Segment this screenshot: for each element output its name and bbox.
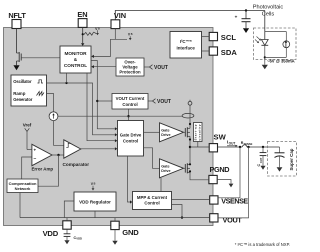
svg-text:B: B	[98, 27, 100, 30]
svg-text:Protection: Protection	[119, 70, 141, 75]
node input cap junction	[245, 9, 247, 11]
label Iout with arrow	[227, 140, 238, 147]
wire VOUT CC down to sense line and GDC top	[128, 109, 130, 121]
wire OVP to monitor	[94, 66, 117, 68]
node COUT tap	[262, 146, 264, 148]
buffer upper gate drive	[160, 123, 184, 142]
pin SCL	[209, 32, 217, 40]
wire compensation to bottom rail	[19, 193, 21, 218]
svg-text:Control: Control	[123, 138, 138, 143]
monitor & control U1	[60, 46, 91, 73]
node rail	[189, 123, 191, 125]
wire GDC to upper driver	[144, 131, 160, 133]
svg-text:EN: EN	[77, 10, 87, 19]
pin SDA	[209, 47, 217, 55]
wire EN down	[82, 27, 84, 43]
comparator U2	[63, 140, 90, 167]
capacitor CIN	[235, 11, 251, 29]
svg-text:Comparator: Comparator	[63, 162, 90, 167]
node SW junction	[189, 146, 191, 148]
capacitor CVDD	[64, 229, 82, 240]
wire EN arrow into monitor	[81, 43, 84, 46]
wire startup to SW	[197, 142, 199, 148]
svg-text:VIN: VIN	[114, 11, 126, 20]
MPP & current control block	[133, 192, 172, 210]
wire to SW pin	[190, 146, 209, 148]
wire summer to comparator	[54, 121, 64, 146]
svg-text:Drive: Drive	[161, 133, 170, 137]
wire below diode	[264, 45, 266, 59]
node VOUT tap	[247, 146, 249, 148]
svg-text:SDA: SDA	[221, 48, 238, 57]
wire to VOUT current control	[97, 100, 112, 102]
svg-text:MPP & Current: MPP & Current	[137, 195, 168, 200]
VOUT current control block	[112, 94, 148, 110]
node osc-monitor	[65, 82, 67, 84]
VDD regulator block	[74, 192, 116, 211]
wire VIN to VB tap	[115, 29, 127, 40]
svg-text:I²C™*: I²C™*	[180, 39, 192, 44]
ground NFLT	[13, 65, 19, 70]
wire VOUT feedback	[218, 147, 248, 218]
IC block body	[4, 28, 214, 226]
wire MPP top stub	[160, 178, 162, 192]
wire to PGND	[190, 172, 209, 180]
wire feedback to error amp -	[22, 157, 32, 179]
resistor RSENSE	[241, 141, 253, 147]
svg-text:Super Cap: Super Cap	[289, 148, 294, 170]
supply VB (VIN)	[128, 33, 133, 41]
node bottom rail	[181, 216, 183, 218]
svg-text:Gate Drive: Gate Drive	[120, 133, 142, 138]
wire GDC to MPP control	[128, 156, 131, 202]
compensation network block	[7, 179, 38, 193]
wire SW external	[218, 146, 242, 148]
svg-text:SENSE: SENSE	[244, 142, 253, 146]
wire VSENSE feedback	[218, 147, 240, 198]
pin VOUT	[210, 214, 218, 222]
svg-text:VOUT Current: VOUT Current	[116, 96, 145, 101]
wire after RSENSE	[247, 146, 279, 148]
transistor Q1 (NFLT open-drain)	[17, 52, 22, 65]
svg-text:Interface: Interface	[177, 45, 196, 50]
current source I1	[283, 32, 290, 58]
Vref supply	[23, 123, 32, 150]
svg-text:Control: Control	[144, 201, 159, 206]
pin VSENSE	[210, 196, 218, 204]
transistor Q2 (high side)	[184, 127, 191, 137]
wire I2C to SCL	[202, 36, 210, 38]
startup circuitry block	[194, 123, 203, 142]
node sense line	[127, 115, 129, 117]
ground super cap	[277, 167, 283, 171]
wire VDD pin stub	[66, 218, 68, 221]
svg-text:+: +	[34, 148, 37, 153]
wire oscillator output	[47, 83, 115, 135]
supply VB (VDD reg)	[91, 182, 96, 190]
svg-text:VDD Regulator: VDD Regulator	[79, 199, 111, 204]
svg-text:B: B	[94, 183, 96, 186]
wire ramp to summer	[47, 94, 54, 112]
svg-text:PGND: PGND	[210, 165, 230, 174]
wire drain rail upper	[189, 105, 191, 128]
tag VOUT (VOUT CC)	[148, 99, 171, 105]
wire monitor rail to VOUT current control / GDC	[91, 61, 115, 129]
svg-text:Photovoltaic: Photovoltaic	[253, 5, 284, 11]
wire PGND external ground	[217, 180, 231, 184]
wire PV top rail	[265, 31, 287, 33]
svg-text:Drive: Drive	[161, 169, 170, 173]
svg-text:SW: SW	[214, 133, 227, 142]
svg-text:Ramp: Ramp	[13, 91, 26, 96]
ground CVDD	[64, 240, 69, 244]
wire gate from monitor	[21, 57, 60, 59]
node lower FET drain	[189, 163, 191, 165]
photovoltaic cells dashed box	[254, 28, 297, 60]
supply bubble top of rail	[188, 100, 192, 105]
wire VDD reg left to rail	[64, 201, 74, 218]
photodiode D1	[255, 37, 268, 46]
svg-text:Gate: Gate	[161, 128, 169, 132]
svg-text:* I²C™ is a trademark of NXP.: * I²C™ is a trademark of NXP.	[235, 242, 290, 247]
wire current sense line	[58, 115, 182, 117]
wire to compensation network	[38, 155, 59, 186]
resistor EN pull-up	[84, 32, 94, 35]
svg-text:~6V @ 350mA: ~6V @ 350mA	[267, 58, 295, 63]
buffer lower gate drive	[160, 159, 184, 178]
wire NFLT down	[16, 29, 18, 54]
wire MPP to VSENSE	[172, 199, 210, 201]
oscillator / ramp generator block	[11, 75, 47, 106]
svg-text:−: −	[34, 156, 37, 162]
wire GDC to lower driver	[144, 148, 160, 169]
svg-text:GND: GND	[122, 228, 139, 237]
ground GND pin	[112, 230, 117, 245]
svg-text:Control: Control	[122, 102, 137, 107]
summer node (multiplier)	[49, 112, 58, 121]
pin GND	[111, 221, 119, 229]
node VOUT CC tap	[96, 100, 98, 102]
super cap dashed box	[268, 142, 297, 177]
wire VIN sense into monitor	[94, 39, 116, 56]
ground PV	[262, 60, 268, 70]
wire monitor to gate drive control	[87, 73, 115, 141]
node error amp output	[57, 154, 59, 156]
wire comparator output	[81, 148, 115, 150]
svg-text:+: +	[235, 14, 238, 19]
wire bottom rail	[20, 217, 210, 219]
node PV bottom	[264, 56, 266, 58]
current sense loop	[182, 113, 194, 118]
wire monitor to osc line	[66, 73, 68, 83]
svg-text:VOUT: VOUT	[154, 65, 168, 71]
svg-text:OUT: OUT	[259, 157, 263, 163]
svg-text:Oscillator: Oscillator	[13, 79, 32, 84]
ground	[243, 28, 249, 33]
svg-text:VDD: VDD	[43, 229, 59, 238]
svg-text:CONTROL: CONTROL	[64, 63, 87, 68]
svg-text:VOUT: VOUT	[223, 215, 243, 224]
pin VDD	[63, 221, 71, 229]
svg-text:OUT: OUT	[229, 141, 236, 145]
svg-text:Network: Network	[15, 186, 32, 191]
wire Vref to error amp +	[27, 149, 32, 151]
svg-text:circuitry: circuitry	[197, 124, 201, 140]
svg-text:Cells: Cells	[262, 12, 275, 18]
node EN	[82, 33, 84, 35]
node VSENSE tap	[239, 146, 241, 148]
svg-text:SCL: SCL	[221, 33, 237, 42]
svg-text:Gate: Gate	[161, 164, 169, 168]
supply VB (EN pull-up)	[94, 27, 100, 35]
svg-text:MONITOR: MONITOR	[64, 51, 87, 56]
wire error amp output	[52, 154, 64, 156]
svg-text:VOUT: VOUT	[157, 99, 171, 105]
wire rail to SW	[189, 136, 191, 164]
svg-text:Vref: Vref	[23, 123, 32, 128]
svg-text:Generator: Generator	[13, 97, 33, 102]
wire I2C to SDA	[202, 50, 210, 52]
ground PGND	[229, 184, 234, 188]
svg-text:Error Amp: Error Amp	[32, 167, 54, 172]
svg-text:NFLT: NFLT	[8, 11, 26, 20]
tag VOUT (OVP)	[144, 65, 168, 71]
svg-text:VDD: VDD	[76, 237, 82, 241]
svg-text:B: B	[131, 33, 133, 36]
wire PV bottom rail	[265, 56, 287, 58]
node lower FET source	[189, 170, 191, 172]
capacitor COUT	[257, 147, 267, 167]
op-amp error amp	[32, 144, 54, 171]
over-voltage protection block	[116, 58, 144, 76]
ground COUT	[260, 166, 265, 170]
wire into PV box	[264, 11, 266, 40]
wire GND pin stub	[114, 218, 116, 222]
wire MPP to VOUT rail	[172, 205, 183, 218]
I2C interface block	[170, 32, 202, 59]
wire top VIN rail	[115, 11, 264, 20]
transistor Q3 (low side)	[184, 163, 191, 173]
node upper FET source	[189, 138, 191, 140]
capacitor super cap	[275, 147, 285, 167]
wire VDD reg bottom to rail	[94, 211, 96, 218]
gate drive control block	[118, 121, 144, 157]
